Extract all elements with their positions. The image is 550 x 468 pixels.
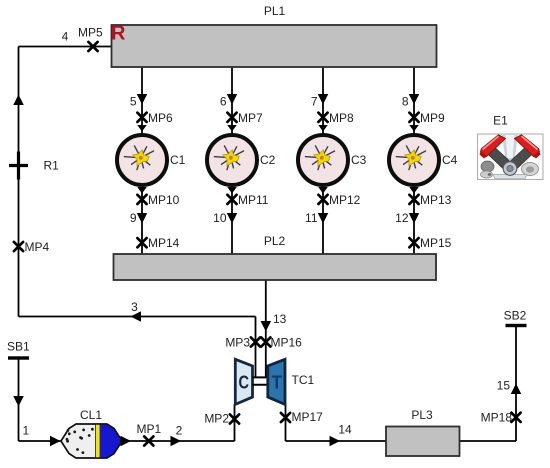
wire C1 outlet to PL2 xyxy=(141,187,143,254)
svg-text:MP6: MP6 xyxy=(148,111,173,125)
combustor C4 xyxy=(389,135,439,185)
label 5 xyxy=(130,95,137,109)
svg-text:E1: E1 xyxy=(493,114,508,128)
measurement point MP11 xyxy=(227,195,236,204)
label C4 xyxy=(442,153,458,167)
flow arrow C4 inlet xyxy=(409,125,419,132)
label PL2 xyxy=(264,234,286,248)
label MP16 xyxy=(271,336,303,350)
svg-text:MP2: MP2 xyxy=(204,412,229,426)
wire 3 (compressor outlet header) xyxy=(19,316,256,318)
flow arrow line 11 down xyxy=(318,213,329,224)
svg-text:MP8: MP8 xyxy=(329,111,354,125)
svg-text:MP4: MP4 xyxy=(25,240,50,254)
measurement point MP9 xyxy=(409,113,418,122)
label MP11 xyxy=(238,193,269,207)
label MP15 xyxy=(420,236,452,250)
svg-text:MP1: MP1 xyxy=(137,422,162,436)
svg-text:MP18: MP18 xyxy=(481,411,513,425)
label 4 xyxy=(62,30,69,44)
measurement point MP6 xyxy=(137,113,146,122)
cooler/dryer CL1 xyxy=(61,424,122,458)
svg-text:T: T xyxy=(272,372,283,393)
svg-text:1: 1 xyxy=(22,424,29,438)
svg-text:MP7: MP7 xyxy=(238,111,263,125)
flow arrow C3 inlet xyxy=(318,125,328,132)
svg-text:MP12: MP12 xyxy=(329,193,361,207)
svg-text:PL1: PL1 xyxy=(264,4,286,18)
plenum PL2 xyxy=(114,254,437,280)
wire left trunk (MP4/R1 riser) xyxy=(18,47,20,317)
svg-text:MP13: MP13 xyxy=(420,193,452,207)
label CL1 xyxy=(80,408,102,422)
svg-text:13: 13 xyxy=(273,312,287,326)
wire PL1 feeder to C3 xyxy=(322,67,324,133)
svg-text:5: 5 xyxy=(130,95,137,109)
wire C3 outlet to PL2 xyxy=(322,187,324,254)
label 8 xyxy=(402,95,409,109)
svg-text:PL3: PL3 xyxy=(411,408,433,422)
measurement point MP2 xyxy=(230,414,239,423)
label MP14 xyxy=(148,236,180,250)
label PL3 xyxy=(411,408,433,422)
measurement point MP10 xyxy=(137,195,146,204)
svg-text:3: 3 xyxy=(131,300,138,314)
wire 2 (CL1 to compressor inlet) xyxy=(122,404,235,441)
measurement point MP15 xyxy=(409,238,418,247)
combustor C1 xyxy=(117,135,167,185)
svg-text:MP3: MP3 xyxy=(225,336,250,350)
label MP9 xyxy=(420,111,445,125)
svg-text:2: 2 xyxy=(176,424,183,438)
label C1 xyxy=(170,153,186,167)
label 11 xyxy=(305,211,318,225)
flow arrow feeder 7 down xyxy=(318,94,329,105)
restrictor R1 xyxy=(9,152,28,180)
svg-text:C1: C1 xyxy=(170,153,186,167)
svg-text:C2: C2 xyxy=(260,153,276,167)
measurement point MP14 xyxy=(137,238,146,247)
measurement point MP16 xyxy=(261,337,270,346)
label 2 xyxy=(176,424,183,438)
svg-text:MP11: MP11 xyxy=(238,193,269,207)
label MP2 xyxy=(204,412,229,426)
measurement point MP1 xyxy=(144,436,153,445)
label 3 xyxy=(131,300,138,314)
label MP10 xyxy=(148,193,180,207)
label MP7 xyxy=(238,111,263,125)
flow arrow 2 right xyxy=(171,436,182,447)
svg-text:MP14: MP14 xyxy=(148,236,180,250)
svg-text:MP15: MP15 xyxy=(420,236,452,250)
svg-text:TC1: TC1 xyxy=(292,373,315,387)
compressor C of turbocharger TC1 xyxy=(235,359,252,404)
flow arrow 13 down xyxy=(261,321,272,332)
measurement point MP8 xyxy=(318,113,327,122)
flow arrow out of CL1 xyxy=(121,436,132,447)
wire PL1 feeder to C2 xyxy=(231,67,233,133)
wire 4 (R1 outlet to PL1) xyxy=(19,46,112,48)
svg-text:12: 12 xyxy=(395,211,409,225)
svg-text:10: 10 xyxy=(213,211,227,225)
svg-text:MP10: MP10 xyxy=(148,193,180,207)
svg-text:11: 11 xyxy=(305,211,318,225)
flow arrow SB1 down xyxy=(13,396,24,407)
system boundary SB1 xyxy=(8,356,29,359)
label 6 xyxy=(220,95,227,109)
svg-text:R1: R1 xyxy=(44,159,60,173)
wire compressor outlet drop to MP3 xyxy=(255,317,257,378)
label MP6 xyxy=(148,111,173,125)
svg-text:7: 7 xyxy=(311,95,318,109)
flow arrow 14 right xyxy=(330,436,341,447)
svg-text:CL1: CL1 xyxy=(80,408,102,422)
svg-text:4: 4 xyxy=(62,30,69,44)
label MP3 xyxy=(225,336,250,350)
flow arrow line 10 down xyxy=(227,213,238,224)
svg-text:8: 8 xyxy=(402,95,409,109)
svg-text:SB1: SB1 xyxy=(7,340,30,354)
svg-text:R: R xyxy=(111,23,126,45)
label SB2 xyxy=(504,309,527,323)
measurement point MP7 xyxy=(227,113,236,122)
wire PL1 feeder to C4 xyxy=(413,67,415,133)
wire 13 (PL2 to turbine inlet) xyxy=(265,280,267,377)
label 13 xyxy=(273,312,287,326)
marker R (red) on PL1 xyxy=(111,23,126,45)
flow arrow 3 left xyxy=(131,311,142,322)
svg-text:6: 6 xyxy=(220,95,227,109)
wire C4 outlet to PL2 xyxy=(413,187,415,254)
wire 14 (turbine outlet to PL3) xyxy=(286,440,387,442)
svg-text:MP17: MP17 xyxy=(292,410,324,424)
combustor C3 xyxy=(298,135,348,185)
flow arrow 15 up xyxy=(511,384,522,395)
plenum PL1 xyxy=(112,25,437,67)
turbine T of turbocharger TC1 xyxy=(268,359,285,404)
label MP5 xyxy=(78,26,103,40)
label MP8 xyxy=(329,111,354,125)
label TC1 xyxy=(292,373,315,387)
label 9 xyxy=(130,211,137,225)
flow arrow C1 outlet xyxy=(137,187,147,194)
flow arrow C4 outlet xyxy=(409,187,419,194)
label MP4 xyxy=(25,240,50,254)
label MP18 xyxy=(481,411,513,425)
wire C2 outlet to PL2 xyxy=(231,187,233,254)
flow arrow line 9 down xyxy=(137,213,148,224)
measurement point MP17 xyxy=(281,413,290,422)
measurement point MP13 xyxy=(409,195,418,204)
svg-text:C3: C3 xyxy=(351,153,367,167)
svg-text:MP9: MP9 xyxy=(420,111,445,125)
flow arrow C1 inlet xyxy=(137,125,147,132)
measurement point MP12 xyxy=(318,195,327,204)
plenum PL3 xyxy=(386,427,460,457)
svg-text:C4: C4 xyxy=(442,153,458,167)
combustor C2 xyxy=(207,135,257,185)
label C3 xyxy=(351,153,367,167)
measurement point MP4 xyxy=(14,242,23,251)
wire turbine outlet drop MP17 xyxy=(285,404,287,441)
svg-text:15: 15 xyxy=(497,379,511,393)
label MP1 xyxy=(137,422,162,436)
label E1 xyxy=(493,114,508,128)
flow arrow C3 outlet xyxy=(318,187,328,194)
flow arrow feeder 5 down xyxy=(137,94,148,105)
engine E1 xyxy=(478,134,544,180)
wire PL1 feeder to C1 xyxy=(141,67,143,133)
wire PL3 outlet to SB2 xyxy=(460,325,517,441)
svg-text:C: C xyxy=(239,372,250,393)
label 15 xyxy=(497,379,511,393)
label SB1 xyxy=(7,340,30,354)
flow arrow feeder 6 down xyxy=(227,94,238,105)
flow arrow into CL1 xyxy=(50,436,61,447)
wire SB1 downcomer xyxy=(18,358,20,441)
svg-text:14: 14 xyxy=(338,423,352,437)
system boundary SB2 xyxy=(506,324,527,327)
flow arrow C2 inlet xyxy=(227,125,237,132)
label MP13 xyxy=(420,193,452,207)
label 10 xyxy=(213,211,227,225)
label 14 xyxy=(338,423,352,437)
label MP17 xyxy=(292,410,324,424)
svg-text:MP16: MP16 xyxy=(271,336,303,350)
svg-text:9: 9 xyxy=(130,211,137,225)
measurement point MP18 xyxy=(511,413,520,422)
flow arrow feeder 8 down xyxy=(409,94,420,105)
label C2 xyxy=(260,153,276,167)
label MP12 xyxy=(329,193,361,207)
svg-text:SB2: SB2 xyxy=(504,309,527,323)
label R1 xyxy=(44,159,60,173)
flow arrow line 12 down xyxy=(409,213,420,224)
measurement point MP3 xyxy=(251,337,260,346)
label 12 xyxy=(395,211,409,225)
svg-text:PL2: PL2 xyxy=(264,234,286,248)
shaft of turbocharger TC1 xyxy=(253,377,269,384)
label 7 xyxy=(311,95,318,109)
label 1 xyxy=(22,424,29,438)
label PL1 xyxy=(264,4,286,18)
svg-text:MP5: MP5 xyxy=(78,26,103,40)
wire 1 (SB1 to CL1) xyxy=(19,440,62,442)
flow arrow trunk up xyxy=(13,95,24,106)
measurement point MP5 xyxy=(88,42,97,51)
flow arrow C2 outlet xyxy=(227,187,237,194)
